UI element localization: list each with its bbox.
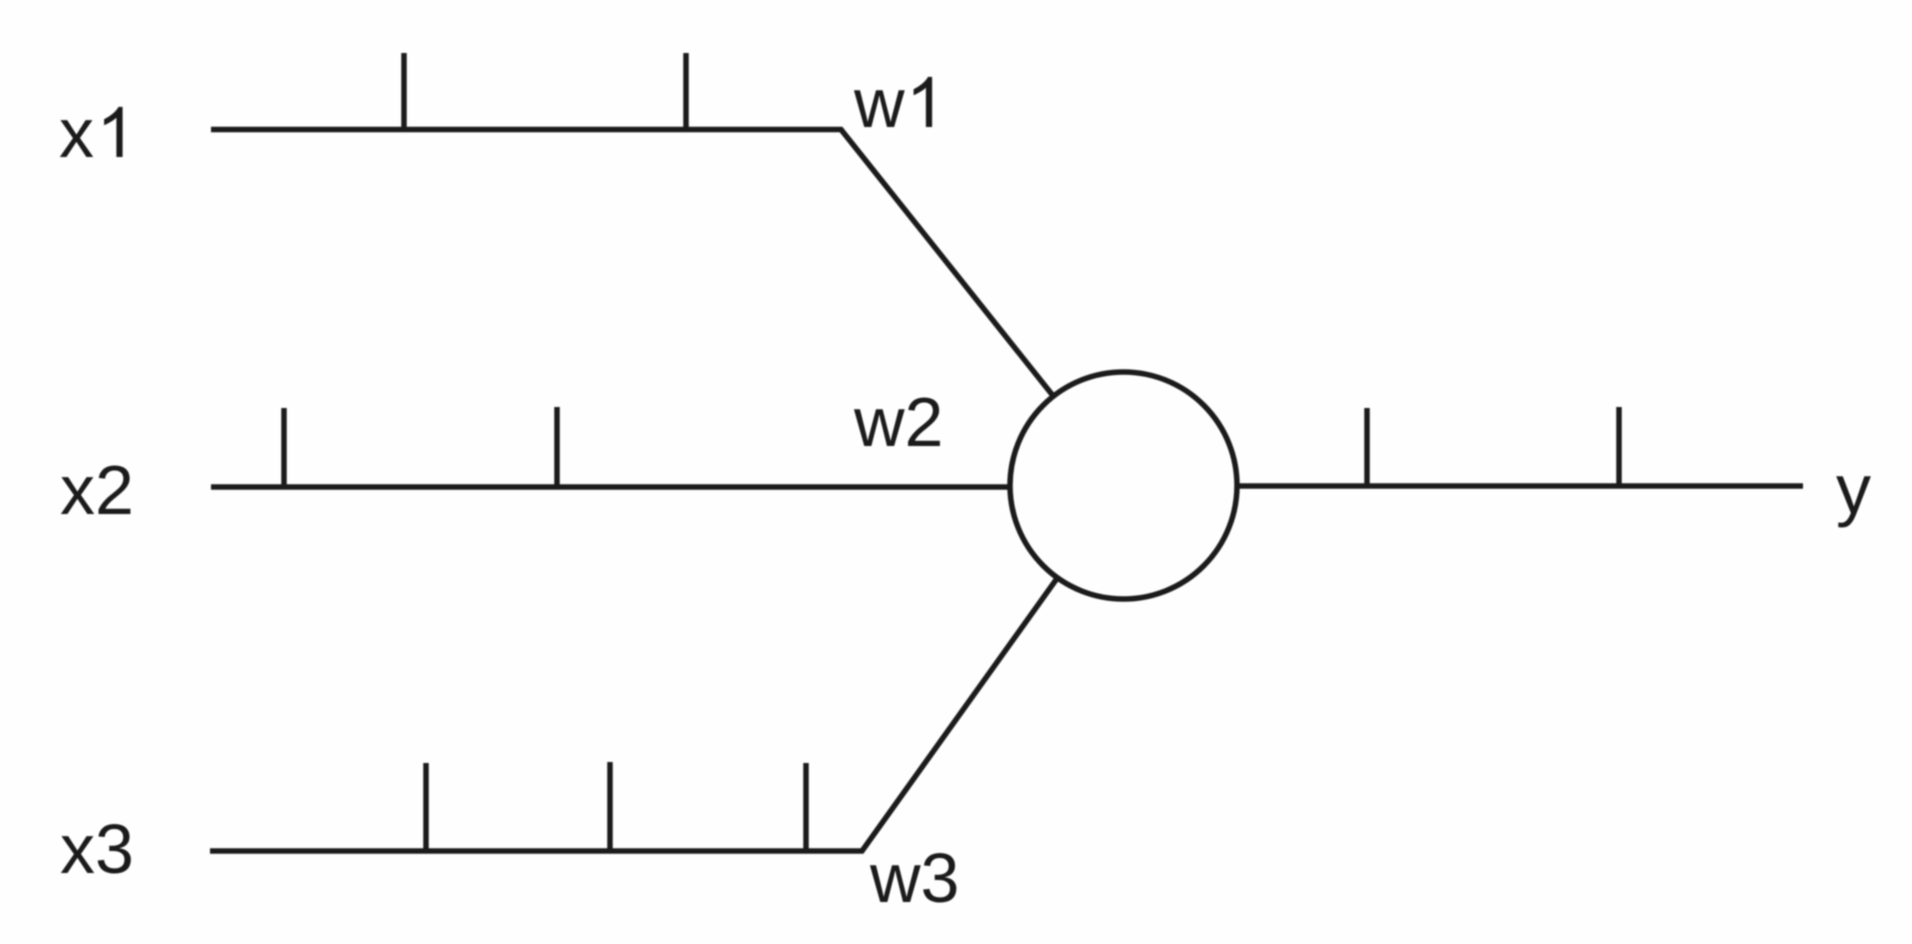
tick on output wire (2)	[1616, 407, 1622, 486]
wire input x2	[211, 484, 1012, 490]
wire input x1	[211, 130, 1058, 403]
tick on x2 wire (2)	[554, 407, 560, 487]
svg-text:x: x	[59, 94, 94, 172]
svg-text:w: w	[853, 64, 905, 142]
svg-text:x3: x3	[60, 810, 134, 888]
svg-text:w3: w3	[869, 839, 959, 917]
tick on x3 wire (2)	[607, 762, 613, 851]
tick on x1 wire (1)	[401, 53, 407, 130]
wire input x3	[210, 577, 1058, 851]
wire output y	[1237, 483, 1803, 489]
svg-text:x2: x2	[60, 451, 134, 529]
svg-text:w2: w2	[853, 383, 943, 461]
tick on x3 wire (3)	[803, 763, 809, 851]
tick on x1 wire (2)	[683, 53, 689, 130]
tick on x2 wire (1)	[281, 408, 287, 487]
neuron body (summing node circle)	[1010, 372, 1237, 599]
tick on output wire (1)	[1364, 408, 1370, 486]
svg-text:y: y	[1836, 450, 1871, 528]
tick on x3 wire (1)	[423, 763, 429, 851]
